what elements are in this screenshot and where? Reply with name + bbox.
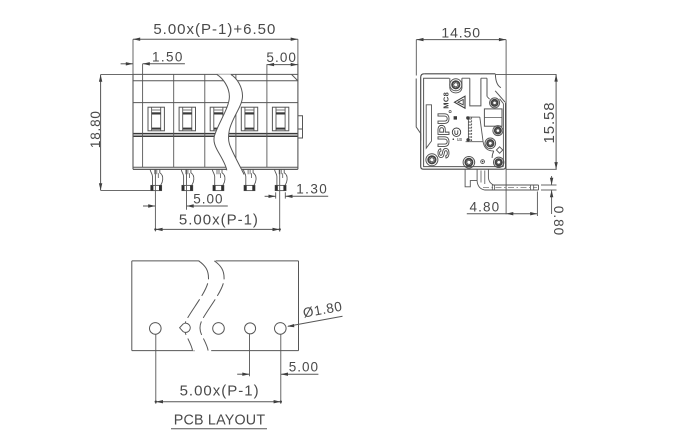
dimension: 5.00x(P-1) (pcb) <box>156 401 281 403</box>
pcb: break line right <box>200 261 224 351</box>
divider wall 3 <box>204 74 206 167</box>
dimension: 5.00 pin pitch (front) <box>154 170 156 232</box>
side view: clamp diagonal <box>480 117 483 142</box>
divider wall 2 <box>173 74 175 167</box>
side view: inner offset outline <box>424 78 504 166</box>
front view: terminal block body horizontal edges <box>133 73 298 75</box>
side view: tail center line <box>483 187 537 189</box>
svg-text:15.58: 15.58 <box>541 101 558 143</box>
side view: body outline <box>424 73 495 75</box>
svg-text:us: us <box>457 137 463 143</box>
side view: solder pin vertical <box>477 169 485 190</box>
boss C6 <box>493 126 503 136</box>
side view: left flange <box>416 79 421 141</box>
front view: screw slot 3 <box>210 107 226 131</box>
dimension: 5.00 (top right position width) <box>267 64 298 66</box>
side view: certification marks <box>454 116 457 119</box>
side view: right notch chamfer <box>495 91 505 102</box>
dimension: 5.00x(P-1) span (front) <box>279 170 281 232</box>
side view: inner left pocket <box>426 105 431 148</box>
boss C1 <box>450 79 462 91</box>
svg-text:SUPU: SUPU <box>436 112 453 158</box>
side view: small pilot hole <box>481 160 485 164</box>
front view: screw slot 2 <box>179 107 195 131</box>
boss C3 <box>426 154 438 166</box>
svg-text:1.50: 1.50 <box>152 49 184 64</box>
dimension: 0.80 tail thickness <box>541 184 557 186</box>
side view: clamp block rectangle <box>484 109 502 126</box>
svg-text:PCB LAYOUT: PCB LAYOUT <box>174 413 266 429</box>
pcb: partial hole at break (teardrop) <box>180 323 191 332</box>
front view: break band erase <box>214 74 244 174</box>
front view: body left edge <box>132 74 134 169</box>
front view: screw slot 1 <box>148 107 164 131</box>
side view: wire clamp spring (dashed bar) <box>466 116 480 118</box>
svg-text:18.80: 18.80 <box>88 110 103 148</box>
side view: cavity curve below clamp <box>483 142 494 151</box>
dimension: 15.58 body height <box>495 73 556 75</box>
side view: solder tail horizontal <box>494 184 539 186</box>
dimension: 1.30 pin width <box>275 192 277 198</box>
front view: body right edge <box>297 64 299 170</box>
svg-text:4.80: 4.80 <box>470 199 501 214</box>
svg-text:MC8: MC8 <box>442 92 451 109</box>
svg-text:5.00x(P-1)+6.50: 5.00x(P-1)+6.50 <box>153 21 276 38</box>
boss C7 <box>494 157 504 167</box>
divider wall 4 <box>235 74 237 167</box>
front view: solder pin 2 <box>181 169 183 185</box>
front view: break line left <box>214 74 229 170</box>
divider wall 5 <box>266 74 268 167</box>
boss C4 <box>463 157 475 169</box>
svg-text:5.00: 5.00 <box>289 360 319 375</box>
svg-text:5.00: 5.00 <box>193 192 223 207</box>
divider wall 1 <box>142 74 144 167</box>
svg-text:14.50: 14.50 <box>441 24 481 40</box>
dimension leader: Ø1.80 hole diameter <box>288 316 343 326</box>
pcb: break line left <box>184 261 208 351</box>
front view: solder pin 3 <box>212 169 214 185</box>
front view: solder pin 4 <box>243 169 245 185</box>
dimension: 1.50 <box>121 63 133 65</box>
front view: screw slot 5 <box>272 107 288 131</box>
side view: bottom plastic peg <box>465 169 477 187</box>
front view: break line right <box>229 74 245 174</box>
pcb: break band erase <box>184 261 224 351</box>
dimension: 4.80 tail length <box>467 213 538 215</box>
svg-text:0.80: 0.80 <box>551 206 566 236</box>
front view: screw slot 4 <box>241 107 257 131</box>
side view: screw channel top <box>449 78 451 88</box>
front view: right side latch tab <box>298 116 303 138</box>
dimension: 5.00 hole pitch (pcb) <box>237 373 249 375</box>
side view: warning triangle mark <box>455 96 466 108</box>
pcb: board outline <box>132 260 200 262</box>
boss C8 <box>490 98 500 108</box>
side view: inner right wall <box>502 104 504 167</box>
front view: top-right bevel <box>292 74 298 80</box>
pcb: mounting holes <box>150 323 162 335</box>
dimension: 14.50 body width <box>416 39 506 41</box>
svg-text:5.00x(P-1): 5.00x(P-1) <box>179 211 259 228</box>
svg-text:5.00x(P-1): 5.00x(P-1) <box>180 382 260 399</box>
side view: top-right hook <box>495 74 501 87</box>
boss C5 <box>485 138 496 149</box>
pcb hole center extension lines <box>155 334 157 404</box>
dimension: 5.00x(P-1)+6.50 overall width <box>133 38 298 40</box>
side view: small diamond hole <box>496 147 502 153</box>
side view: tail section marks <box>492 185 494 190</box>
svg-text:5.00: 5.00 <box>266 50 297 65</box>
front view: solder pin 1 <box>150 169 152 185</box>
svg-text:1.30: 1.30 <box>296 181 328 196</box>
front view: solder pin 5 <box>275 169 277 185</box>
dimension: 18.80 overall height <box>100 75 102 191</box>
